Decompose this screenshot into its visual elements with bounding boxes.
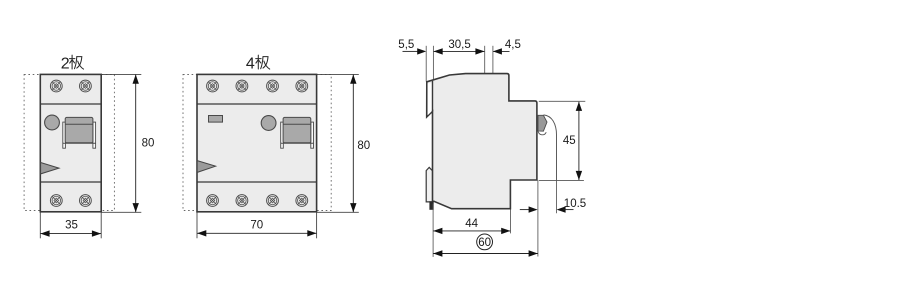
svg-text:4,5: 4,5: [505, 39, 521, 51]
extension line C: [484, 46, 486, 73]
screw terminal top 4: [296, 80, 308, 92]
dimension 10.5 left arrow: [520, 209, 530, 211]
svg-text:4: 4: [246, 55, 255, 72]
dimension line 45: [578, 102, 580, 180]
dimension 4,5 arrow: [493, 50, 510, 52]
top terminal strip divider (4-pole): [197, 103, 317, 105]
extension line top (80 dim 4-pole): [317, 73, 359, 75]
bump lower lobe: [538, 131, 546, 135]
extension line B: [432, 46, 434, 80]
extension line right (44 dim): [510, 210, 512, 234]
mounting outline dotted rectangle (2-pole): [24, 75, 114, 211]
dimension line 80 (2-pole): [135, 75, 137, 213]
channel inner edge: [432, 81, 434, 112]
mounting outline dotted rectangle (4-pole): [183, 75, 331, 211]
dimension 10.5 right arrow: [557, 206, 566, 212]
svg-text:35: 35: [65, 220, 78, 232]
dimension 30,5 line: [434, 50, 485, 52]
dimension line 44: [433, 230, 510, 232]
dimension line 70: [197, 232, 316, 234]
svg-text:5,5: 5,5: [398, 39, 414, 51]
extension line D: [492, 46, 494, 73]
trip lever triangle: [41, 163, 59, 174]
right face extension line down: [537, 180, 539, 256]
bottom terminal strip divider (4-pole): [197, 181, 317, 183]
bottom terminal strip divider: [40, 181, 101, 183]
screw terminal bottom 1: [207, 195, 219, 207]
svg-text:70: 70: [250, 220, 263, 232]
trip lever triangle (4-pole): [197, 161, 215, 173]
rating label plate: [209, 116, 223, 123]
test button: [45, 115, 60, 130]
extension line bottom (80 dim): [101, 211, 141, 213]
extension line left (44/60 dims): [432, 204, 434, 257]
screw terminal top 1: [207, 80, 219, 92]
breaker body (4-pole): [197, 74, 317, 211]
screw terminal top 2: [236, 80, 248, 92]
extension line top (45 dim): [539, 100, 586, 102]
screw terminal bottom 4: [296, 195, 308, 207]
breaker body (2-pole): [40, 74, 101, 211]
screw terminal top 3: [267, 80, 279, 92]
extension line right (35 dim): [100, 213, 102, 239]
test button (4-pole): [261, 116, 276, 131]
DIN clip slider: [426, 167, 432, 202]
svg-text:80: 80: [357, 140, 370, 152]
swing arc: [544, 115, 557, 180]
dimension line 35: [41, 233, 102, 235]
toggle rocker window: [63, 117, 96, 148]
svg-text:30,5: 30,5: [448, 39, 470, 51]
extension line left (70 dim): [196, 213, 198, 239]
svg-text:2: 2: [61, 56, 70, 73]
svg-text:80: 80: [142, 137, 155, 149]
svg-text:45: 45: [563, 135, 576, 147]
screw terminal top-left: [50, 80, 62, 92]
arc extension line down: [556, 180, 558, 213]
dimension line 60: [433, 253, 537, 255]
extension line bottom (80 dim 4-pole): [317, 211, 359, 213]
svg-text:60: 60: [478, 237, 491, 249]
extension line top (80 dim): [101, 73, 141, 75]
extension line left (35 dim): [39, 213, 41, 239]
side profile body: [427, 74, 537, 209]
screw terminal top-right: [80, 80, 92, 92]
extension line bottom (45 dim): [539, 179, 584, 181]
screw terminal bottom 3: [267, 195, 279, 207]
screw terminal bottom 2: [236, 195, 248, 207]
terminal bump on right face: [538, 115, 547, 131]
svg-text:10.5: 10.5: [564, 198, 586, 210]
DIN clip latch (dark): [429, 201, 433, 210]
screw terminal bottom-left: [50, 195, 62, 207]
svg-text:44: 44: [465, 218, 478, 230]
dimension line 80 (4-pole): [352, 75, 354, 213]
label 60 circle: [477, 234, 493, 250]
dimension 5,5 arrow: [403, 50, 419, 52]
top terminal strip divider: [40, 103, 101, 105]
DIN clip channel notch: [428, 83, 432, 115]
extension line A: [425, 46, 427, 82]
extension line right (70 dim): [316, 213, 318, 239]
toggle rocker window (4-pole): [281, 117, 314, 148]
screw terminal bottom-right: [80, 195, 92, 207]
